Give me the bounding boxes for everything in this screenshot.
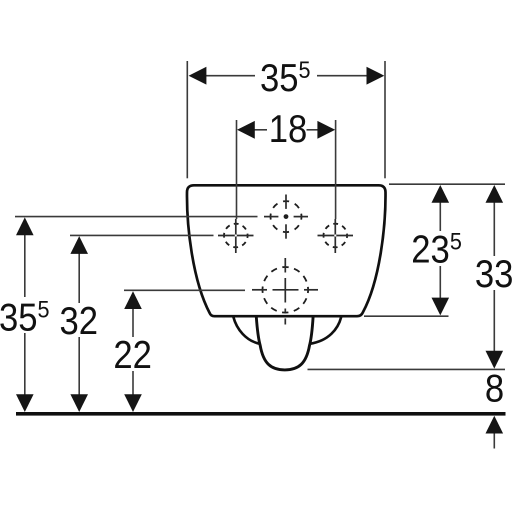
- svg-text:22: 22: [113, 334, 152, 377]
- svg-text:32: 32: [60, 300, 99, 343]
- svg-text:18: 18: [269, 107, 308, 150]
- svg-text:8: 8: [485, 367, 504, 410]
- svg-text:33: 33: [475, 252, 512, 295]
